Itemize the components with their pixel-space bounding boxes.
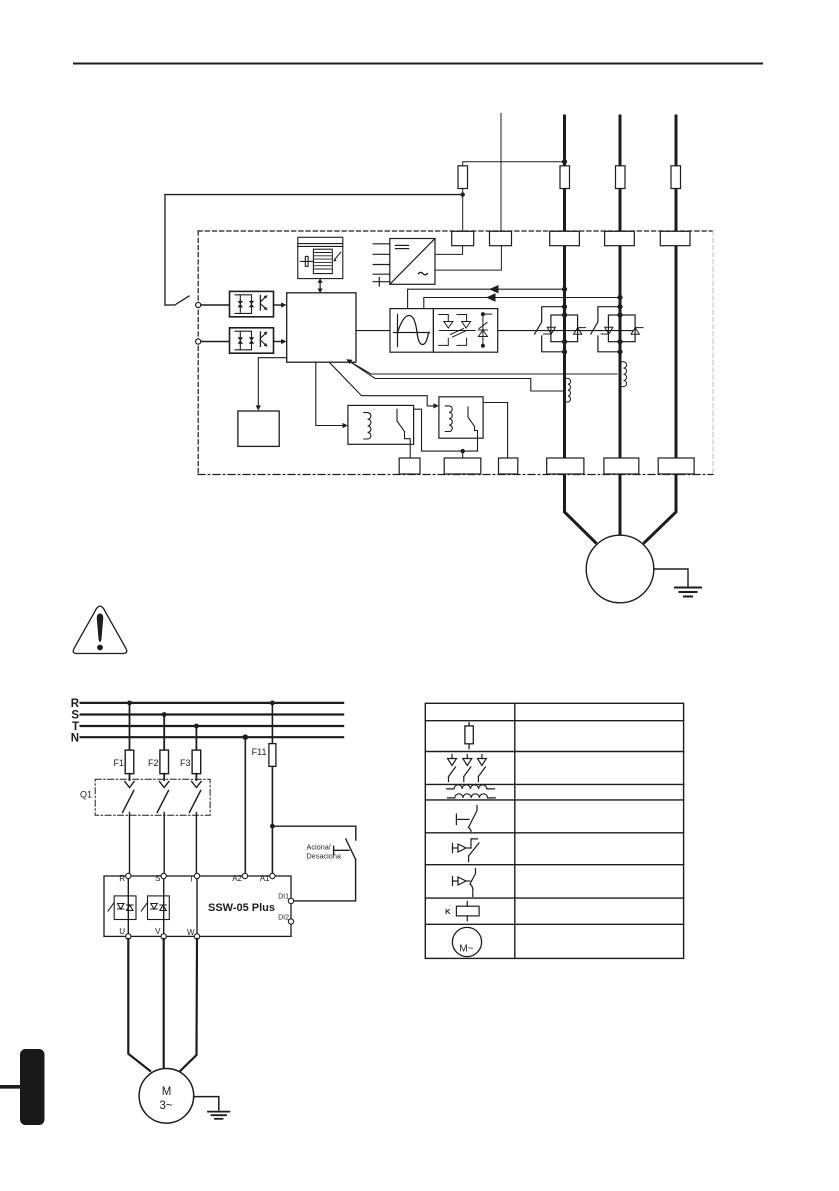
input terminal DI-A	[196, 302, 201, 307]
svg-text:S: S	[155, 874, 160, 883]
bottom terminal box 2T1	[547, 458, 584, 474]
svg-text:V: V	[155, 927, 161, 936]
CPU wire to memory block	[256, 358, 287, 411]
svg-text:M: M	[162, 1086, 172, 1098]
tab tick line	[1, 1085, 20, 1089]
svg-text:K: K	[445, 907, 451, 916]
phase line L1 (R)	[563, 116, 566, 474]
svg-text:Aciona/: Aciona/	[307, 842, 332, 851]
bypass contact L1	[535, 304, 568, 354]
bottom terminal box 13	[399, 458, 420, 474]
motor ground	[194, 1097, 230, 1119]
svg-text:R: R	[119, 874, 125, 883]
dashed enclosure right border	[712, 231, 714, 475]
drop R2 to F11	[271, 703, 273, 744]
disconnect Q1 box	[95, 779, 210, 815]
phase line L3 (T)	[675, 116, 678, 474]
internal phase S line	[163, 879, 165, 935]
gate bus wire	[498, 330, 633, 332]
CPU feedback wire from sensor L2	[346, 359, 617, 374]
bus N	[81, 736, 344, 738]
motor lead L1	[565, 474, 596, 543]
internal phase R line	[127, 879, 129, 935]
PSU output wire 1	[435, 246, 463, 255]
drop S with fuse F2	[160, 715, 169, 781]
node S	[162, 712, 167, 717]
svg-text:U: U	[119, 927, 125, 936]
optocoupler B	[230, 328, 274, 353]
node branch A1	[270, 824, 275, 829]
legend contactor contact symbol	[453, 839, 480, 862]
drop N to A2	[244, 737, 246, 873]
terminal box T2	[490, 231, 512, 245]
node R2	[270, 701, 275, 706]
start/stop switch blade	[346, 839, 356, 859]
svg-text:DI2: DI2	[278, 915, 289, 922]
svg-text:M~: M~	[459, 944, 473, 955]
svg-text:SSW-05 Plus: SSW-05 Plus	[208, 902, 275, 914]
arrow optoA to CPU	[274, 304, 284, 306]
CPU wire to relay K2	[330, 363, 439, 409]
current sensor L1	[565, 378, 571, 402]
legend disconnect symbol	[448, 755, 487, 782]
relay K1	[348, 405, 414, 458]
label Aciona/Desaciona	[307, 842, 342, 860]
motor lead L3	[645, 474, 677, 543]
fuse F L1	[560, 166, 570, 189]
svg-text:T: T	[72, 721, 79, 733]
motor lead L2	[619, 474, 622, 535]
thyristor module L2	[601, 312, 643, 344]
fuse F L3	[671, 166, 681, 189]
svg-text:F11: F11	[252, 747, 267, 757]
svg-text:T: T	[189, 875, 194, 884]
bottom terminal box 4T2	[604, 458, 639, 474]
dashed enclosure left border	[197, 231, 199, 475]
legend motor symbol	[452, 927, 481, 956]
svg-text:N: N	[71, 733, 79, 745]
control horizontal wire	[165, 194, 463, 196]
SCR module S	[141, 896, 169, 920]
wire terminal A to optocoupler	[201, 304, 230, 306]
legend fuse symbol	[465, 723, 473, 749]
warning triangle	[73, 606, 127, 653]
control wire below fuse to terminal	[462, 189, 464, 232]
input terminal DI-B	[196, 339, 201, 344]
terminal box 5L3	[660, 231, 690, 245]
svg-text:F2: F2	[148, 758, 159, 768]
legend table grid	[425, 703, 683, 958]
top horizontal rule	[74, 63, 762, 65]
control tap wire from L1	[463, 159, 567, 166]
relay output bus	[414, 403, 508, 458]
CPU wire to relay K1	[316, 362, 348, 428]
dashed enclosure bottom border (dash-dot)	[198, 474, 713, 476]
svg-text:3~: 3~	[159, 1100, 172, 1112]
bottom terminal box 43	[499, 458, 518, 474]
legend aux contact symbol	[453, 869, 476, 897]
Q1 pole R	[123, 782, 135, 876]
memory block	[238, 411, 279, 446]
terminal box 3L2	[605, 231, 635, 245]
keypad/adjust block	[298, 237, 343, 278]
bidirectional arrow keypad-CPU	[318, 278, 323, 293]
zero-cross / sine block	[390, 309, 433, 353]
switch actuator bar	[334, 846, 349, 854]
motor M 3~	[139, 1069, 194, 1124]
motor M (top diagram)	[586, 535, 654, 603]
thyristor module L1	[544, 312, 586, 344]
bus R	[81, 702, 344, 704]
node R	[127, 701, 132, 706]
optocoupler A	[230, 291, 274, 316]
Q1 pole T	[189, 782, 201, 876]
gate driver block	[433, 309, 497, 353]
fuse F11	[269, 744, 276, 767]
SSW-05 enclosure	[104, 876, 291, 936]
legend NO contact symbol	[456, 806, 477, 832]
legend transformer symbol	[447, 785, 496, 798]
CPU block	[287, 293, 356, 362]
fuse F L2	[616, 166, 626, 189]
control fuse	[458, 166, 468, 189]
PSU output wire 2	[435, 246, 501, 270]
start/stop branch wire	[272, 826, 355, 840]
bypass contact L2	[591, 304, 623, 354]
legend coil symbol K	[445, 902, 479, 921]
internal phase T line	[196, 879, 198, 935]
ground (top diagram)	[654, 569, 701, 597]
terminals and labels	[126, 873, 294, 939]
svg-text:Desaciona: Desaciona	[307, 852, 342, 861]
node T	[194, 724, 199, 729]
current sensor L2	[620, 362, 627, 387]
CPU feedback wire from sensor L1	[352, 363, 563, 391]
wire CPU to firing block	[356, 330, 390, 332]
junction node	[461, 192, 465, 196]
svg-text:DI1: DI1	[278, 894, 289, 901]
svg-text:F3: F3	[180, 758, 191, 768]
motor lead V	[163, 939, 165, 1069]
Q1 pole S	[157, 782, 169, 876]
terminal box T1	[452, 231, 474, 245]
dashed enclosure top border	[198, 230, 713, 232]
SCR module R	[108, 896, 136, 920]
svg-text:F1: F1	[113, 758, 124, 768]
svg-text:W: W	[187, 928, 195, 937]
control feed vertical to terminal box 2	[500, 114, 502, 232]
svg-text:A2: A2	[232, 874, 242, 883]
bottom terminal box 6T3	[658, 458, 694, 474]
wire F11 to A1	[271, 766, 273, 873]
svg-text:A1: A1	[260, 874, 270, 883]
motor lead W	[180, 939, 197, 1071]
terminal box 1L1	[550, 231, 580, 245]
bus S	[81, 713, 344, 715]
node N	[243, 734, 249, 740]
drop T with fuse F3	[192, 726, 201, 780]
bus labels	[71, 698, 80, 745]
bus T	[81, 725, 344, 727]
bottom terminal box 23/33	[444, 458, 481, 474]
sync feedback wire L1 (arrow left)	[408, 285, 568, 309]
svg-text:Q1: Q1	[80, 790, 92, 800]
wire switch to DI1	[294, 859, 356, 901]
sync feedback wire L2 (arrow left)	[424, 293, 623, 308]
power supply U1	[373, 239, 435, 287]
relay K2	[439, 397, 483, 451]
arrow optoB to CPU	[274, 341, 284, 343]
phase line L2 (S)	[619, 116, 622, 474]
svg-text:R: R	[71, 698, 80, 710]
external switch drop	[165, 195, 189, 305]
page tab marker	[20, 1049, 45, 1125]
svg-text:S: S	[71, 710, 79, 722]
drop R with fuse F1	[125, 703, 134, 780]
motor lead U	[128, 939, 150, 1071]
wire terminal B to optocoupler	[201, 341, 230, 343]
